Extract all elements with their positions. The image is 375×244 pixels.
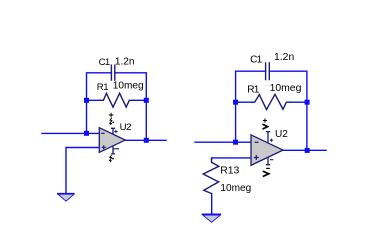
wire: inverting input (left) [42, 132, 99, 134]
capacitor C1 (left) plates [111, 65, 114, 80]
net label V+ (right op-amp top) [263, 119, 267, 123]
wire: output (left) [125, 139, 166, 141]
op-amp U2 (right) V+ power pin [266, 132, 270, 143]
op-amp U2 (left) V+ pin plus mark [114, 130, 117, 133]
net flag squiggle (left op-amp bottom) [110, 155, 112, 162]
node: right of R1 (right circuit) [305, 100, 310, 105]
net flag plus (left op-amp top) [109, 113, 114, 118]
wire: resistor row leads (left) [87, 99, 147, 101]
capacitor C1 (right) plates [266, 63, 270, 80]
node: right inverting-input junction [233, 140, 238, 145]
wire: inverting input (right) [195, 141, 251, 143]
node: right output junction [305, 148, 310, 153]
net label V- (right op-amp bottom) [266, 167, 270, 169]
node: left feedback/R1 junction [84, 98, 89, 103]
wire: non-inverting input (left) [66, 148, 99, 194]
ground (left) [58, 193, 75, 195]
svg-text:C1: C1 [99, 57, 110, 68]
op-amp U2 (left) body [99, 128, 125, 153]
wire: resistor row leads (right) [236, 101, 307, 103]
svg-text:1.2n: 1.2n [274, 52, 294, 63]
resistor R1 (left) zigzag [100, 93, 133, 107]
op-amp U2 (right) minus input label [255, 141, 259, 143]
svg-text:1.2n: 1.2n [115, 56, 135, 67]
svg-text:C1: C1 [250, 55, 262, 66]
svg-text:U2: U2 [120, 122, 132, 133]
svg-text:10meg: 10meg [113, 81, 144, 92]
ground (right) [202, 213, 221, 215]
wire: left feedback loop top segment [87, 73, 147, 141]
op-amp U2 (right) body [251, 135, 283, 165]
resistor R13 zigzag [203, 158, 219, 194]
op-amp U2 (left) plus input label [102, 145, 106, 149]
node: left inverting-input junction [84, 131, 89, 136]
svg-text:10meg: 10meg [220, 183, 251, 194]
net flag squiggle (left op-amp top) [110, 118, 112, 125]
op-amp U2 (left) minus input label [101, 132, 105, 134]
op-amp U2 (left) V- power pin [111, 146, 115, 154]
svg-text:U2: U2 [275, 129, 288, 140]
wire: output (right) [283, 149, 326, 151]
resistor R1 (right) zigzag [252, 94, 291, 109]
wire: right feedback loop top segment [236, 71, 307, 150]
node: left output junction [144, 138, 149, 143]
node: right of R1 (left circuit) [144, 98, 149, 103]
op-amp U2 (left) V+ power pin [111, 128, 115, 134]
wire: R13 bottom lead to ground [211, 194, 213, 214]
op-amp U2 (right) plus input label [254, 155, 259, 160]
op-amp U2 (left) V- pin minus mark [113, 148, 119, 150]
op-amp U2 (right) V- power pin [266, 157, 270, 165]
node: right feedback/R1 junction [233, 100, 238, 105]
svg-text:R13: R13 [220, 165, 239, 176]
svg-text:R1: R1 [97, 82, 108, 93]
op-amp U2 (right) V+ pin plus mark [270, 139, 273, 142]
op-amp U2 (right) V- pin minus mark [270, 159, 274, 161]
wire: non-inverting input (right) [212, 158, 251, 160]
svg-text:10meg: 10meg [270, 83, 302, 94]
svg-text:R1: R1 [247, 85, 259, 96]
